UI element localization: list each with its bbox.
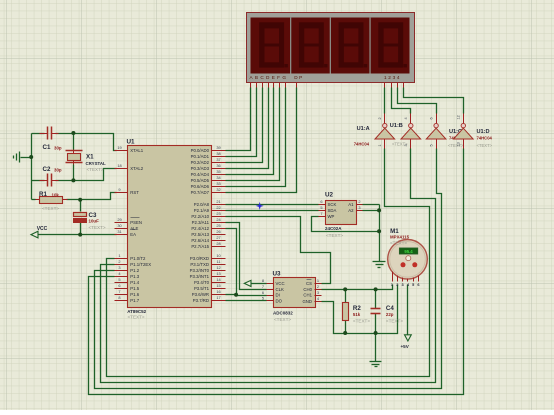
svg-text:11: 11 [216, 259, 220, 264]
display digit 4 ghost segments [378, 22, 407, 67]
svg-text:<TEXT>: <TEXT> [353, 319, 370, 324]
svg-text:6: 6 [430, 117, 434, 119]
svg-text:38: 38 [216, 151, 220, 156]
svg-text:12: 12 [457, 115, 461, 119]
svg-text:GND: GND [302, 299, 312, 304]
svg-text:10k: 10k [52, 193, 60, 198]
resistor R1 10k [36, 191, 68, 211]
U3 pins [262, 278, 322, 304]
svg-text:P3.2/INT0: P3.2/INT0 [190, 268, 210, 273]
wire R1 node to C3 top [80, 200, 82, 212]
wire P2.1 to U2 SDA [226, 210, 319, 212]
svg-text:1: 1 [378, 144, 382, 146]
svg-text:<TEXT>: <TEXT> [274, 317, 291, 322]
microcontroller U1 AT89C52 [115, 138, 226, 319]
wire R1 right to RST [67, 193, 117, 200]
svg-text:A1: A1 [348, 202, 354, 207]
inverter U1:A 74HC04 [375, 114, 395, 149]
svg-text:2: 2 [358, 199, 360, 204]
ground symbol U2 net [373, 262, 386, 268]
svg-text:U1:B: U1:B [390, 123, 403, 129]
svg-text:PSEN: PSEN [130, 220, 142, 225]
svg-text:19: 19 [117, 145, 121, 150]
svg-text:CH0: CH0 [303, 287, 312, 292]
svg-text:2: 2 [317, 284, 319, 289]
svg-text:P0.6/AD6: P0.6/AD6 [191, 184, 210, 189]
svg-text:R2: R2 [353, 305, 361, 312]
junction gnd tap [29, 155, 33, 159]
svg-text:ALE: ALE [130, 226, 138, 231]
wire U2 WP loop to gnd net [312, 217, 380, 232]
wire P2.4 to U3 DI [226, 229, 267, 296]
svg-text:A2: A2 [348, 208, 354, 213]
wire C4 bottom [375, 314, 377, 334]
svg-text:P1.7: P1.7 [130, 298, 139, 303]
svg-text:C1: C1 [43, 144, 51, 151]
svg-text:P3.4/T0: P3.4/T0 [194, 280, 210, 285]
svg-text:P1.0/T2: P1.0/T2 [130, 256, 146, 261]
wire P1.3 bus to U1:D input [89, 149, 464, 395]
svg-text:1234: 1234 [384, 75, 401, 80]
svg-text:7: 7 [118, 289, 120, 294]
svg-text:AT89C52: AT89C52 [127, 309, 146, 314]
svg-text:ABCDEFG: ABCDEFG [250, 75, 289, 80]
inverter U1:B 74HC04 [401, 114, 421, 149]
svg-text:12: 12 [216, 265, 220, 270]
wire U2 A1 to gnd net [363, 204, 380, 206]
svg-text:WP: WP [328, 214, 335, 219]
svg-text:9: 9 [118, 187, 120, 192]
svg-text:P2.4/A12: P2.4/A12 [191, 226, 209, 231]
wire crystal top [73, 134, 75, 150]
svg-text:2: 2 [118, 259, 120, 264]
M1 pins 1-6 [391, 272, 421, 287]
wire rail to ground [375, 334, 377, 362]
U1 left pins with numbers [115, 145, 152, 303]
svg-text:5: 5 [430, 144, 434, 146]
svg-text:P0.3/AD3: P0.3/AD3 [191, 166, 210, 171]
svg-text:CS: CS [306, 281, 312, 286]
wire C4 top [375, 290, 377, 309]
capacitor C2 30p [40, 166, 62, 187]
svg-text:25: 25 [216, 223, 220, 228]
svg-text:10uF: 10uF [89, 219, 100, 224]
svg-text:5: 5 [262, 296, 264, 301]
svg-text:15: 15 [216, 283, 220, 288]
svg-text:5: 5 [118, 277, 120, 282]
svg-text:<TEXT>: <TEXT> [477, 143, 493, 148]
svg-text:6: 6 [118, 283, 120, 288]
svg-text:23: 23 [216, 211, 220, 216]
junction C4 bottom [374, 331, 378, 335]
svg-text:16: 16 [216, 289, 220, 294]
adc U3 ADC0832 [244, 271, 321, 322]
wire U3 GND rail to M1 pin2 [322, 285, 398, 334]
svg-text:P1.1/T2EX: P1.1/T2EX [130, 262, 151, 267]
svg-text:37: 37 [216, 157, 220, 162]
capacitor C4 22p [371, 305, 404, 324]
svg-text:39: 39 [216, 145, 220, 150]
svg-text:4: 4 [404, 117, 408, 119]
svg-text:MPX4115: MPX4115 [390, 235, 410, 240]
junction C3/VCC rail [78, 233, 82, 237]
svg-text:P1.5: P1.5 [130, 286, 139, 291]
ground symbol bottom rail [370, 362, 382, 367]
display pins [251, 83, 404, 88]
wire P2.2 to U3 CS [226, 217, 331, 284]
sensor M1 MPX4115 [388, 228, 428, 287]
eeprom U2 24C02A [319, 192, 363, 238]
svg-text:7: 7 [320, 211, 322, 216]
wire display segment E to P0.4 [226, 88, 274, 175]
svg-text:P3.0/RXD: P3.0/RXD [190, 256, 209, 261]
svg-text:3: 3 [118, 265, 120, 270]
junction WP/gnd net [377, 229, 381, 233]
wire M1 pin4 to +5V [407, 285, 409, 335]
wire display segment DP to P0.7 [226, 88, 297, 193]
wire left vertical C1/C2/R1 net [31, 134, 33, 200]
wire P1.2 bus to U1:C input [95, 149, 442, 389]
svg-text:DP: DP [294, 75, 304, 80]
display digit 1 ghost segments [259, 22, 288, 67]
inverter U1:C 74HC04 [426, 114, 446, 149]
display digit 3 ghost segments [339, 22, 368, 67]
display LED1 4-digit 7-segment module [247, 13, 415, 88]
svg-text:<TEXT>: <TEXT> [87, 167, 104, 172]
wire P3.6 branch to DI node [226, 294, 237, 296]
wire to C1 left [32, 133, 45, 135]
svg-text:24C02A: 24C02A [325, 226, 342, 231]
svg-text:P3.5/T1: P3.5/T1 [194, 286, 210, 291]
wire C3 bottom to VCC rail [80, 223, 82, 235]
svg-text:35: 35 [216, 169, 220, 174]
wire to R1 left [32, 199, 36, 201]
capacitor C1 30p [40, 127, 62, 152]
svg-text:U1: U1 [127, 138, 136, 145]
wire display pin4 to U1:D output [404, 88, 464, 114]
wire display segment D to P0.3 [226, 88, 269, 169]
svg-text:30p: 30p [54, 146, 62, 151]
svg-text:DI: DI [276, 293, 280, 298]
svg-text:VCC: VCC [276, 281, 285, 286]
svg-text:2: 2 [378, 117, 382, 119]
svg-text:74HC04: 74HC04 [354, 141, 370, 146]
svg-text:X1: X1 [86, 154, 94, 161]
svg-text:1: 1 [317, 278, 319, 283]
svg-text:U3: U3 [273, 271, 282, 278]
resistor R2 51k [343, 303, 371, 324]
wire display segment B to P0.1 [226, 88, 257, 157]
junction R1/C3 [78, 198, 82, 202]
svg-text:17: 17 [216, 295, 220, 300]
svg-text:P0.7/AD7: P0.7/AD7 [191, 190, 210, 195]
svg-text:31: 31 [117, 229, 121, 234]
junction R2 top [343, 287, 347, 291]
svg-text:P0.5/AD5: P0.5/AD5 [191, 178, 210, 183]
ground symbol left [14, 152, 20, 163]
svg-text:32: 32 [216, 187, 220, 192]
svg-text:P3.3/INT1: P3.3/INT1 [190, 274, 210, 279]
svg-text:XTAL1: XTAL1 [130, 148, 143, 153]
inverter label U1:D [477, 129, 493, 148]
svg-text:18: 18 [117, 163, 121, 168]
wire display pin1 to U1:A output [384, 88, 386, 114]
svg-text:8: 8 [118, 295, 120, 300]
wire R2 top [345, 290, 347, 303]
wire P2.0 to U2 SCK [226, 204, 319, 206]
svg-text:<TEXT>: <TEXT> [42, 206, 59, 211]
svg-text:P2.2/A10: P2.2/A10 [191, 214, 209, 219]
svg-text:P0.2/AD2: P0.2/AD2 [191, 160, 210, 165]
wire U2 A2 to gnd net [363, 210, 380, 212]
wire display segment G to P0.6 [226, 88, 286, 187]
svg-text:R1: R1 [39, 191, 47, 198]
svg-text:3: 3 [358, 205, 360, 210]
wire C2 right to XTAL2 [56, 169, 117, 181]
svg-text:27: 27 [216, 235, 220, 240]
svg-text:U2: U2 [325, 192, 334, 199]
wire crystal bottom [73, 165, 75, 181]
junction A2/gnd net [377, 208, 381, 212]
svg-text:22: 22 [216, 205, 220, 210]
svg-text:3: 3 [317, 290, 319, 295]
svg-text:P3.1/TXD: P3.1/TXD [190, 262, 209, 267]
wire U3 VCC to power arrow [252, 283, 267, 285]
origin marker [256, 202, 264, 210]
svg-text:C2: C2 [43, 166, 51, 173]
svg-text:VCC: VCC [37, 226, 48, 232]
svg-text:P2.0/A8: P2.0/A8 [194, 202, 210, 207]
junction C2/X1 [71, 178, 75, 182]
power symbol VCC arrow [31, 226, 48, 238]
svg-text:P2.7/A15: P2.7/A15 [191, 244, 209, 249]
svg-text:P3.6/WR: P3.6/WR [192, 292, 209, 297]
wire display segment A to P0.0 [226, 88, 251, 151]
svg-text:5: 5 [320, 205, 322, 210]
wire P3.7 to U3 DO [226, 300, 267, 302]
svg-text:P3.7/RD: P3.7/RD [193, 298, 209, 303]
svg-text:P1.6: P1.6 [130, 292, 139, 297]
svg-text:P0.1/AD1: P0.1/AD1 [191, 154, 210, 159]
svg-text:P2.6/A14: P2.6/A14 [191, 238, 209, 243]
wire VCC rail to EA [39, 234, 117, 236]
svg-text:P2.1/A9: P2.1/A9 [194, 208, 210, 213]
svg-text:P1.3: P1.3 [130, 274, 139, 279]
svg-text:1: 1 [118, 253, 120, 258]
svg-text:95.4: 95.4 [404, 249, 413, 254]
svg-text:P0.4/AD4: P0.4/AD4 [191, 172, 210, 177]
crystal X1 CRYSTAL [66, 150, 107, 173]
wire display pin3 to U1:C output [398, 88, 437, 114]
wire display pin2 to U1:B output [392, 88, 411, 114]
svg-text:<TEXT>: <TEXT> [326, 233, 343, 238]
svg-text:XTAL2: XTAL2 [130, 166, 143, 171]
capacitor C3 10uF electrolytic [74, 212, 106, 230]
power symbol U3 VCC arrow [244, 280, 251, 286]
svg-text:30p: 30p [54, 168, 62, 173]
svg-text:DO: DO [276, 298, 283, 303]
display digit 2 ghost segments [299, 22, 328, 67]
inverter labels U1:A U1:B U1:C [354, 123, 465, 148]
junction C4 top [374, 287, 378, 291]
svg-text:<TEXT>: <TEXT> [390, 241, 407, 246]
svg-text:13: 13 [457, 142, 461, 146]
U2 pins [319, 199, 363, 219]
svg-text:RST: RST [130, 190, 139, 195]
wire display segment F to P0.5 [226, 88, 280, 181]
svg-text:C4: C4 [386, 305, 394, 312]
U1 right pins with numbers [190, 145, 226, 303]
svg-text:P0.0/AD0: P0.0/AD0 [191, 148, 210, 153]
svg-text:74HC04: 74HC04 [477, 135, 493, 140]
svg-text:CLK: CLK [276, 287, 284, 292]
wire P1.1 bus to U1:B input [101, 149, 436, 383]
svg-text:28: 28 [216, 241, 220, 246]
svg-text:8: 8 [262, 278, 264, 283]
wire C1 right to XTAL1 [56, 134, 117, 151]
svg-text:26: 26 [216, 229, 220, 234]
inverter U1:D 74HC04 [454, 114, 474, 149]
svg-text:EA: EA [130, 232, 136, 237]
wire P1.0 bus to U1:A input [107, 149, 430, 377]
svg-text:CH1: CH1 [303, 293, 312, 298]
svg-text:13: 13 [216, 271, 220, 276]
svg-text:P1.4: P1.4 [130, 280, 139, 285]
svg-text:P2.3/A11: P2.3/A11 [192, 220, 210, 225]
junction R2 bottom [343, 331, 347, 335]
svg-text:P1.2: P1.2 [130, 268, 139, 273]
svg-text:29: 29 [117, 217, 121, 222]
svg-text:U1:A: U1:A [357, 126, 370, 132]
svg-text:SDA: SDA [328, 208, 337, 213]
svg-text:6: 6 [320, 199, 322, 204]
wire P2.3 to U3 CLK [226, 223, 267, 290]
svg-text:ADC0832: ADC0832 [273, 310, 293, 315]
wire gnd net vertical [379, 205, 381, 262]
svg-text:P2.5/A13: P2.5/A13 [191, 232, 209, 237]
wire U3 CH0 to R2 C4 M1 pin1 [322, 285, 393, 290]
svg-text:SCK: SCK [328, 202, 337, 207]
junction C1/X1 [71, 131, 75, 135]
svg-text:6: 6 [262, 290, 264, 295]
wire to C2 left [32, 180, 45, 182]
svg-text:21: 21 [216, 199, 220, 204]
svg-text:<TEXT>: <TEXT> [386, 319, 403, 324]
svg-text:U1:D: U1:D [477, 129, 490, 135]
svg-text:<TEXT>: <TEXT> [128, 314, 145, 319]
svg-text:7: 7 [262, 284, 264, 289]
wire R2 bottom [345, 321, 347, 334]
svg-text:36: 36 [216, 163, 220, 168]
svg-text:33: 33 [216, 181, 220, 186]
wire display segment C to P0.2 [226, 88, 263, 163]
svg-text:3: 3 [404, 144, 408, 146]
power symbol +5V arrow [401, 335, 412, 349]
svg-text:51k: 51k [353, 312, 361, 317]
svg-text:22p: 22p [386, 312, 394, 317]
wire ground tap [21, 157, 32, 159]
svg-text:CRYSTAL: CRYSTAL [86, 161, 107, 166]
junction DI/P3.6 [234, 293, 238, 297]
svg-text:<TEXT>: <TEXT> [89, 225, 106, 230]
svg-text:+5V: +5V [401, 344, 410, 349]
